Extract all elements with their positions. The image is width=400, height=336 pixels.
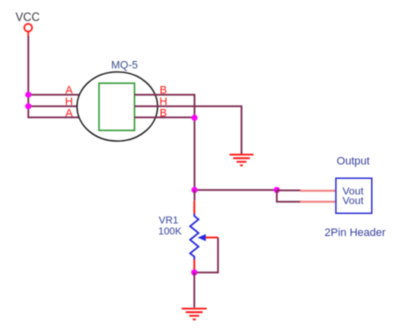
junction dot B row3 / vertical — [191, 115, 197, 121]
junction dot at VCC/A row1 — [25, 92, 31, 98]
wire wiper loop — [194, 238, 218, 273]
svg-text:VR1: VR1 — [159, 215, 179, 226]
sensor body ellipse MQ-5 — [77, 72, 158, 141]
wire left pin A row1 — [28, 94, 99, 96]
ground symbol lower (VR1) — [182, 309, 207, 320]
junction dot at VCC/H row2 — [25, 103, 31, 109]
svg-text:100K: 100K — [158, 227, 182, 238]
svg-text:A: A — [65, 108, 73, 120]
svg-text:MQ-5: MQ-5 — [111, 60, 138, 72]
header pin 1 (salmon) — [300, 190, 336, 192]
wire stub below main node — [194, 190, 196, 201]
VR1 top pin (red) — [193, 201, 195, 214]
svg-text:VCC: VCC — [16, 12, 40, 24]
junction dot main node — [191, 187, 197, 193]
wire from VCC down to bottom-left corner — [27, 36, 29, 117]
VR1 wiper arrow — [198, 234, 206, 241]
wire main node horizontal to output — [195, 189, 277, 191]
junction dot VR1 bottom / wiper — [191, 269, 197, 275]
wire output top segment — [277, 189, 301, 191]
junction dot output split — [274, 187, 280, 193]
wire right pin B row3 — [135, 116, 195, 118]
wire left pin H row2 — [28, 105, 99, 107]
svg-text:2Pin Header: 2Pin Header — [325, 227, 386, 239]
VR1 wiper red stub — [206, 237, 219, 239]
sensor inner green rectangle — [99, 83, 135, 130]
potentiometer VR1 zigzag — [190, 214, 198, 260]
ground symbol upper (H pin) — [230, 155, 254, 166]
wire output bottom segment — [277, 190, 301, 202]
VCC power symbol — [24, 24, 32, 32]
2-pin header box U-output — [336, 178, 372, 213]
wire right pin H row2 to ground — [135, 106, 242, 154]
svg-text:A: A — [65, 85, 73, 97]
wire VR1 bottom to ground — [193, 273, 195, 308]
svg-text:Vout: Vout — [343, 195, 364, 207]
svg-text:Output: Output — [337, 155, 370, 167]
header pin 2 (salmon) — [300, 201, 336, 203]
svg-text:H: H — [65, 96, 73, 108]
VR1 bottom pin (red) — [193, 260, 195, 270]
wire left pin A row3 — [28, 116, 100, 118]
VCC pin stub (red) — [27, 32, 29, 37]
wire right pin B row1 to vertical — [135, 95, 195, 190]
